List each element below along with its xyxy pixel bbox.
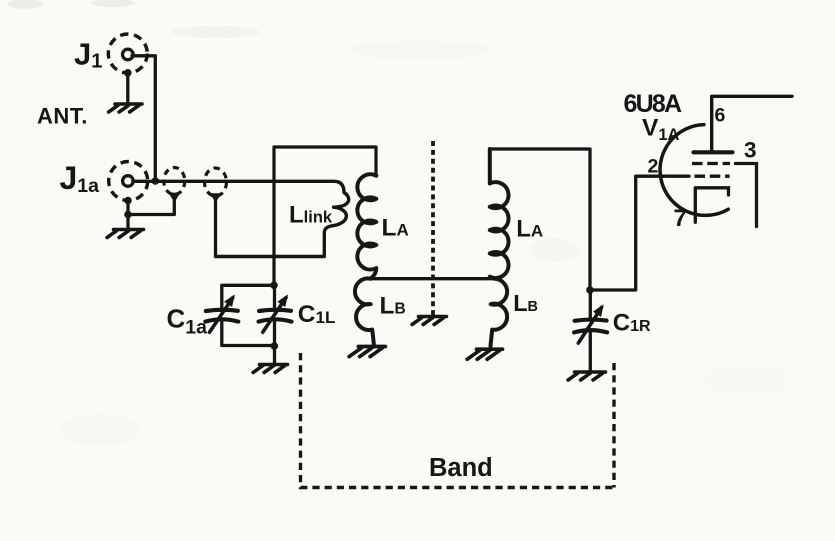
svg-text:3: 3 xyxy=(744,138,757,163)
svg-text:Band: Band xyxy=(429,454,493,482)
svg-text:7: 7 xyxy=(674,205,687,232)
svg-text:2: 2 xyxy=(648,156,659,178)
svg-text:6: 6 xyxy=(715,105,726,127)
svg-text:ANT.: ANT. xyxy=(37,104,88,129)
